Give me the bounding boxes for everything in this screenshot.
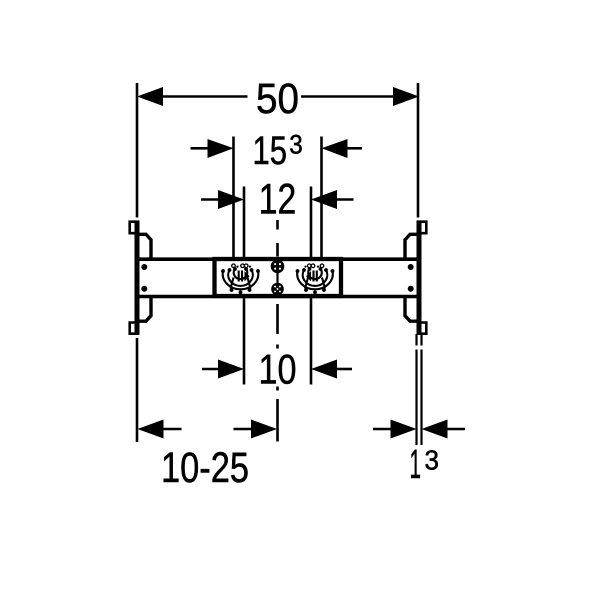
extension line left (50) — [136, 83, 139, 218]
right bottom tab — [418, 323, 426, 334]
right flange top — [405, 234, 417, 258]
dimension 1^3 tails — [373, 428, 465, 431]
center axis dashes below rail — [276, 304, 279, 391]
rail hole left upper — [141, 264, 147, 270]
right wall anchor bar — [417, 221, 422, 335]
svg-text:1: 1 — [410, 441, 422, 487]
crossbar rail top edge — [137, 257, 419, 261]
extension line right (12) — [310, 187, 313, 260]
dimension 15^3 right arrow — [322, 139, 348, 158]
left top tab — [130, 222, 138, 234]
extension line right (10) — [310, 298, 313, 384]
right top tab — [418, 222, 426, 234]
svg-text:12: 12 — [259, 176, 297, 224]
double dashed lines right (1^3) — [417, 334, 422, 445]
dimension 10 left arrow — [218, 360, 244, 379]
svg-text:10-25: 10-25 — [161, 444, 249, 492]
dimension 10 right arrow — [311, 360, 337, 379]
dimension 1^3 left arrow — [391, 420, 417, 439]
dimension 12 tails — [201, 198, 354, 201]
left fan top mini circles — [232, 264, 248, 268]
right flange bottom — [405, 298, 417, 322]
rail hole right lower — [408, 286, 414, 292]
axis line through plate — [276, 259, 278, 297]
svg-text:3: 3 — [425, 445, 440, 476]
dimension 50 line — [161, 95, 395, 98]
right fan top mini circles — [308, 264, 324, 268]
dimension 12 right arrow — [311, 190, 337, 209]
dimension 15^3 tails — [191, 147, 363, 150]
dimension 15^3 left arrow — [208, 139, 234, 158]
svg-text:3: 3 — [289, 130, 303, 160]
dimension 12 left arrow — [218, 190, 244, 209]
dimension 50 right arrow — [393, 87, 419, 106]
top knob circle — [271, 260, 285, 274]
dimension 10-25 right arrow — [251, 420, 277, 439]
dimension 1^3 right arrow — [422, 420, 448, 439]
extension line left (12) — [243, 187, 246, 260]
svg-text:50: 50 — [256, 75, 299, 123]
extension line center (10-25) — [276, 399, 279, 442]
left flange bottom — [139, 298, 151, 322]
bottom knob circle — [271, 283, 284, 296]
svg-text:10: 10 — [259, 346, 297, 393]
right spray fan icon — [297, 269, 333, 289]
extension line right (50) — [417, 83, 420, 218]
dimension 10 tails — [202, 368, 352, 371]
svg-text:15: 15 — [253, 129, 288, 173]
center axis dashes above rail — [276, 220, 279, 257]
crossbar rail bottom edge — [137, 295, 419, 299]
extension line right (15^3) — [320, 137, 323, 260]
left spray fan icon — [223, 269, 259, 289]
mixer mounting plate — [215, 259, 342, 296]
dimension 10-25 tails — [162, 428, 253, 431]
left line below bracket — [136, 338, 139, 442]
rail hole left lower — [141, 286, 147, 292]
left bottom tab — [130, 323, 138, 334]
left wall anchor bar — [135, 221, 140, 335]
extension line left (10) — [243, 298, 246, 384]
extension line left (15^3) — [232, 137, 235, 260]
left flange top — [139, 234, 151, 258]
dimension 50 left arrow — [137, 87, 163, 106]
dimension 10-25 left arrow — [138, 420, 164, 439]
rail hole right upper — [408, 264, 414, 270]
